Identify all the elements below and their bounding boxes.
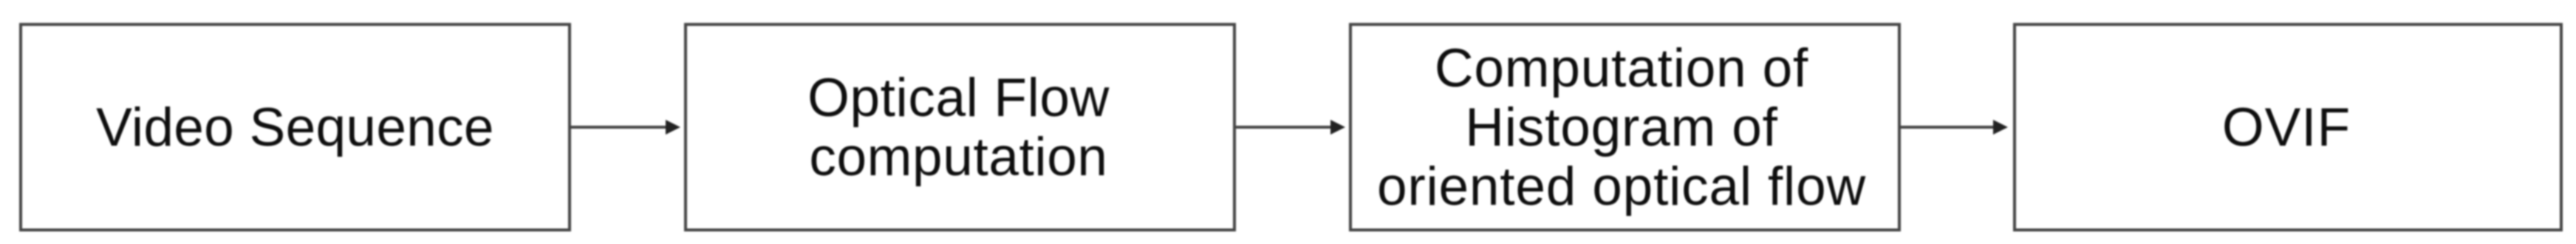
arrowhead 3 <box>1993 120 2008 135</box>
box: Optical Flow computation <box>684 23 1236 231</box>
wire: arrow 1 line <box>571 126 666 129</box>
wire: arrow 2 line <box>1236 126 1330 129</box>
arrowhead 2 <box>1330 120 1345 135</box>
arrowhead 1 <box>666 120 680 135</box>
box: Computation of Histogram of oriented optical flow <box>1349 23 1901 231</box>
box: Video Sequence <box>19 23 571 231</box>
box: OVIF <box>2013 23 2563 231</box>
wire: arrow 3 line <box>1901 126 1993 129</box>
